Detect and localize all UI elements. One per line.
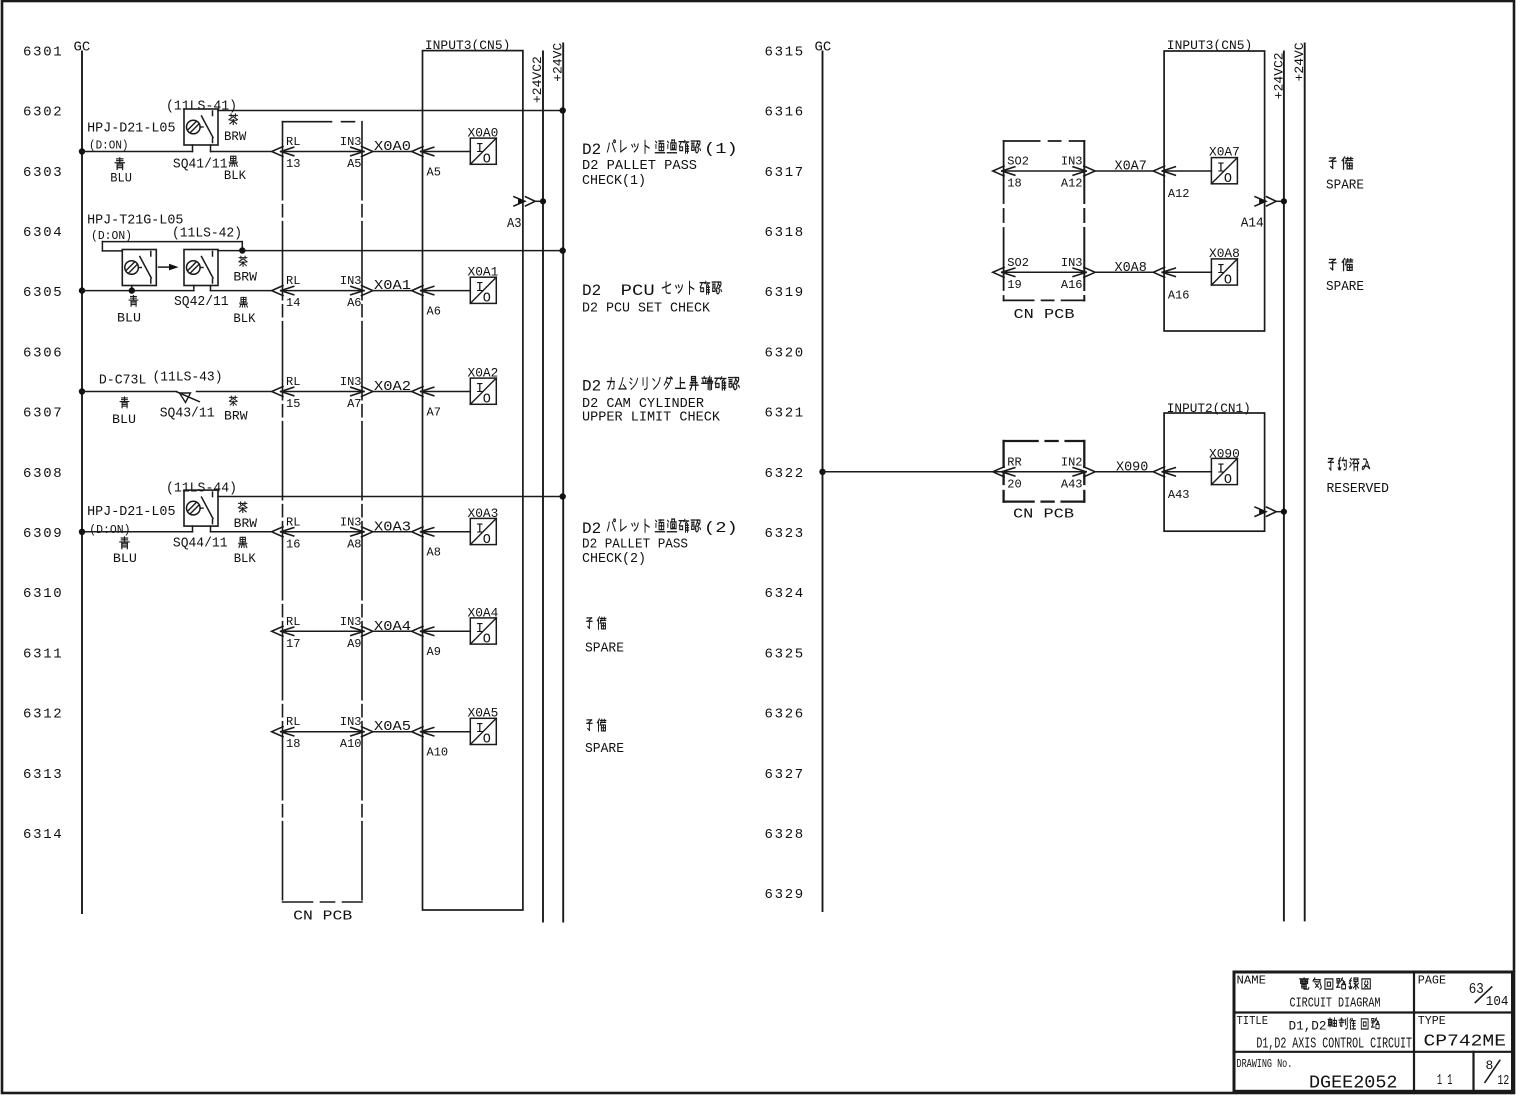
junction dot GC row6303 <box>79 148 85 154</box>
svg-text:PCU: PCU <box>621 282 655 300</box>
svg-text:12: 12 <box>1498 1074 1510 1089</box>
connector arrow SO2-19 left <box>993 267 1004 277</box>
svg-text:6304: 6304 <box>23 225 63 241</box>
wire X0A8 <box>1095 271 1153 273</box>
connector arrow IN3-A16 right <box>1084 267 1095 277</box>
connector arrow INPUT3 A5 <box>412 147 423 157</box>
connector arrow IN3-A10 right <box>362 727 373 737</box>
svg-text:BLK: BLK <box>233 312 256 326</box>
I/O input X0A7 <box>1211 158 1237 184</box>
wire GC to SQ43 <box>82 391 177 393</box>
svg-text:INPUT3(CN5): INPUT3(CN5) <box>425 38 511 53</box>
svg-text:X0A8: X0A8 <box>1115 260 1147 276</box>
wire GC to SQ41 pin <box>82 151 193 153</box>
svg-text:SPARE: SPARE <box>585 741 624 757</box>
svg-text:CP742ME: CP742ME <box>1424 1033 1507 1052</box>
I/O input X0A0 <box>470 138 496 164</box>
junction dot +24VC row6302 <box>560 107 566 113</box>
wire A16 to I/O <box>1163 271 1212 273</box>
svg-text:O: O <box>483 153 491 168</box>
wire inside CN PCB row R1 <box>1002 170 1086 172</box>
svg-text:6307: 6307 <box>23 406 63 422</box>
svg-text:A8: A8 <box>427 546 441 560</box>
connector INPUT2(CN1) box <box>1164 413 1265 531</box>
svg-text:D2 PCU SET CHECK: D2 PCU SET CHECK <box>582 301 711 317</box>
svg-text:A5: A5 <box>347 157 361 171</box>
description spare 2 <box>587 720 592 730</box>
I/O input X0A1 <box>470 277 496 303</box>
svg-text:+24VC: +24VC <box>551 43 566 82</box>
svg-text:IN3: IN3 <box>340 615 362 629</box>
svg-text:A16: A16 <box>1168 288 1190 302</box>
svg-text:NAME: NAME <box>1237 975 1267 988</box>
junction dot GC row6305 <box>79 287 85 293</box>
pin SQ42 left <box>193 286 195 291</box>
svg-text:6309: 6309 <box>23 526 63 542</box>
junction dot +24VC2 A14 <box>1281 198 1287 204</box>
svg-text:SPARE: SPARE <box>1326 177 1364 193</box>
rail +24VC left <box>562 44 564 922</box>
wire A7 to I/O <box>421 391 470 393</box>
svg-text:104: 104 <box>1486 994 1509 1010</box>
proximity switch SQ42 sensor head <box>122 250 156 286</box>
svg-text:O: O <box>483 533 491 548</box>
svg-text:A8: A8 <box>347 537 361 551</box>
wire SQ42 to CN PCB <box>211 290 272 292</box>
svg-text:20: 20 <box>1007 477 1021 491</box>
junction dot +24VC2 A3 <box>540 198 546 204</box>
wire inside CN PCB row E <box>281 630 364 632</box>
svg-text:SQ42/11: SQ42/11 <box>174 294 229 310</box>
svg-text:A43: A43 <box>1061 477 1083 491</box>
wire A43 to I/O <box>1163 471 1212 473</box>
svg-text:6319: 6319 <box>765 285 805 301</box>
svg-text:X0A2: X0A2 <box>468 366 499 381</box>
junction dot GC row6307 <box>79 388 85 394</box>
svg-text:IN3: IN3 <box>340 135 362 149</box>
svg-text:X0A0: X0A0 <box>468 126 499 141</box>
svg-text:6310: 6310 <box>23 586 63 602</box>
svg-text:6320: 6320 <box>765 345 805 361</box>
svg-text:6302: 6302 <box>23 105 63 121</box>
junction dot +24VC2 INPUT2 <box>1281 509 1287 515</box>
label 茶 row D <box>238 502 247 513</box>
wire SQ43 to CN PCB <box>197 391 272 393</box>
svg-text:X0A4: X0A4 <box>374 619 411 635</box>
wire X0A0 <box>373 151 412 153</box>
svg-text:CN PCB: CN PCB <box>1013 507 1074 523</box>
pin SQ41 left <box>192 145 194 152</box>
connector arrow RL15 left <box>272 387 283 397</box>
svg-text:18: 18 <box>1007 177 1021 191</box>
svg-text:6329: 6329 <box>765 887 805 903</box>
svg-text:16: 16 <box>286 537 300 551</box>
wire X090 <box>1095 471 1153 473</box>
svg-text:D1,D2: D1,D2 <box>1289 1019 1327 1034</box>
svg-text:O: O <box>483 292 491 307</box>
svg-text:A12: A12 <box>1168 187 1190 201</box>
svg-text:A3: A3 <box>507 217 522 232</box>
connector arrow RL18 left <box>272 727 283 737</box>
svg-text:6323: 6323 <box>765 526 805 542</box>
svg-text:A9: A9 <box>347 637 361 651</box>
svg-text:SO2: SO2 <box>1007 256 1029 270</box>
svg-text:(1): (1) <box>704 141 738 158</box>
svg-text:6301: 6301 <box>23 44 63 60</box>
wire GC to SQ44 pin <box>82 531 193 533</box>
svg-text:1 1: 1 1 <box>1437 1072 1452 1089</box>
arrow A3 to +24VC2 <box>514 197 525 206</box>
svg-text:PAGE: PAGE <box>1418 975 1446 988</box>
connector arrow IN3-A8 right <box>362 527 373 537</box>
wire A12 to I/O <box>1163 170 1212 172</box>
wire A10 to I/O <box>421 731 470 733</box>
svg-text:X090: X090 <box>1209 446 1240 461</box>
svg-text:+24VC2: +24VC2 <box>1271 52 1286 99</box>
wire inside CN PCB row R2 <box>1002 271 1086 273</box>
label 黒 row D <box>239 537 247 547</box>
I/O input X0A3 <box>470 518 496 544</box>
svg-text:A9: A9 <box>427 645 441 659</box>
svg-text:6316: 6316 <box>765 105 805 121</box>
pin SQ42 right <box>210 286 212 291</box>
svg-text:6326: 6326 <box>765 707 805 723</box>
connector arrow INPUT3 A6 <box>412 286 423 296</box>
svg-text:D2: D2 <box>582 520 601 538</box>
I/O input X0A2 <box>470 378 496 404</box>
wire X0A4 <box>373 630 412 632</box>
svg-text:O: O <box>1224 172 1232 187</box>
rail +24VC2 right <box>1283 52 1285 921</box>
label 茶 row C <box>229 396 237 406</box>
wire A6 to I/O <box>421 290 470 292</box>
connector arrow RL17 left <box>272 626 283 636</box>
svg-text:IN2: IN2 <box>1061 455 1083 469</box>
svg-text:A6: A6 <box>347 296 361 310</box>
svg-text:+24VC2: +24VC2 <box>530 56 545 103</box>
svg-text:X0A2: X0A2 <box>374 379 411 395</box>
svg-text:X0A5: X0A5 <box>374 719 411 735</box>
I/O input X0A4 <box>470 618 496 644</box>
pin SQ42 head <box>131 286 133 291</box>
wire GC to RR connector <box>823 471 1003 473</box>
connector INPUT3(CN5) left box <box>423 51 523 910</box>
svg-text:63: 63 <box>1469 981 1484 998</box>
svg-text:A10: A10 <box>427 746 449 760</box>
svg-text:IN3: IN3 <box>1061 256 1083 270</box>
label 青 row B <box>129 296 138 307</box>
svg-text:D2: D2 <box>582 282 601 300</box>
connector arrow IN3-A7 right <box>362 387 373 397</box>
svg-text:O: O <box>483 393 491 408</box>
connector arrow IN3-A6 right <box>362 286 373 296</box>
connector arrow IN3-A9 right <box>362 626 373 636</box>
connector INPUT3(CN5) right box <box>1164 51 1265 331</box>
svg-text:(11LS-43): (11LS-43) <box>153 371 223 386</box>
svg-text:HPJ-D21-L05: HPJ-D21-L05 <box>87 121 175 137</box>
svg-text:6328: 6328 <box>765 827 805 843</box>
svg-text:UPPER LIMIT CHECK: UPPER LIMIT CHECK <box>582 410 721 426</box>
svg-text:D2: D2 <box>582 141 601 159</box>
svg-text:15: 15 <box>286 397 300 411</box>
wire A8 to I/O <box>421 531 470 533</box>
svg-text:(D:ON): (D:ON) <box>89 138 129 152</box>
svg-text:(D:ON): (D:ON) <box>89 523 130 537</box>
svg-text:(11LS-42): (11LS-42) <box>172 226 242 241</box>
svg-text:CN PCB: CN PCB <box>1014 307 1075 323</box>
label 青 row D <box>120 537 129 549</box>
svg-text:BRW: BRW <box>234 517 258 531</box>
wire GC under SQ42 head <box>82 290 194 292</box>
svg-text:6318: 6318 <box>765 225 805 241</box>
limit switch SQ43/11 contact <box>177 392 199 402</box>
actuation arrow between switches <box>159 266 173 268</box>
svg-text:6321: 6321 <box>765 406 805 422</box>
svg-text:RR: RR <box>1007 455 1021 469</box>
svg-text:13: 13 <box>286 157 300 171</box>
junction dot +24VC row6308 <box>560 493 566 499</box>
svg-text:SQ43/11: SQ43/11 <box>160 405 215 421</box>
svg-text:6303: 6303 <box>23 165 63 181</box>
svg-text:6317: 6317 <box>765 165 805 181</box>
svg-text:19: 19 <box>1007 278 1021 292</box>
wire inside CN PCB row B <box>281 290 364 292</box>
sheet slash <box>1485 1060 1500 1082</box>
svg-text:6308: 6308 <box>23 466 63 482</box>
wire inside CN PCB row F <box>281 731 364 733</box>
connector arrow RL14 left <box>272 286 283 296</box>
svg-text:(11LS-44): (11LS-44) <box>166 482 237 497</box>
svg-text:A14: A14 <box>1241 217 1264 232</box>
svg-text:BRW: BRW <box>224 130 247 144</box>
description spare right 1 <box>1329 158 1336 168</box>
connector arrow INPUT3 A9 <box>412 626 423 636</box>
label 茶 row A <box>229 114 238 125</box>
wire inside CN PCB row R3 <box>1002 471 1086 473</box>
svg-text:SPARE: SPARE <box>1326 279 1364 295</box>
bus GC left vertical <box>81 52 83 914</box>
proximity switch SQ41/11 <box>184 109 218 145</box>
connector arrow INPUT3 A7 <box>412 387 423 397</box>
svg-text:RL: RL <box>286 515 300 529</box>
connector arrow INPUT2 A43 <box>1153 467 1164 477</box>
svg-text:6324: 6324 <box>765 586 805 602</box>
wire inside CN PCB row D <box>281 531 364 533</box>
svg-text:6311: 6311 <box>23 646 63 662</box>
bus GC right vertical <box>822 52 824 912</box>
svg-text:INPUT2(CN1): INPUT2(CN1) <box>1167 401 1251 416</box>
wire X0A2 <box>373 391 412 393</box>
svg-text:X0A4: X0A4 <box>468 605 499 620</box>
svg-text:18: 18 <box>286 737 300 751</box>
svg-text:TYPE: TYPE <box>1418 1015 1446 1028</box>
svg-text:A5: A5 <box>427 165 441 179</box>
svg-text:BLU: BLU <box>112 413 136 427</box>
svg-text:D-C73L: D-C73L <box>99 373 146 389</box>
svg-text:BLU: BLU <box>117 311 141 325</box>
connector CN PCB right upper dashed box <box>1004 140 1085 142</box>
connector CN PCB right lower dashed box <box>1004 440 1085 442</box>
junction dot +24VC row6304 <box>560 247 566 253</box>
svg-text:A7: A7 <box>347 397 361 411</box>
arrow INPUT2 to +24VC2 <box>1255 507 1266 516</box>
svg-text:RL: RL <box>286 135 300 149</box>
connector arrow INPUT3 A16 <box>1153 267 1164 277</box>
pin SQ44 right <box>210 526 212 532</box>
arrow A14 to +24VC2 <box>1255 197 1266 206</box>
svg-text:IN3: IN3 <box>340 715 362 729</box>
svg-text:RL: RL <box>286 615 300 629</box>
label 黒 row B <box>240 297 248 307</box>
svg-text:O: O <box>483 632 491 647</box>
connector CN PCB left dashed box <box>283 121 363 123</box>
svg-text:IN3: IN3 <box>340 274 362 288</box>
svg-text:X0A1: X0A1 <box>374 278 411 294</box>
svg-text:17: 17 <box>286 637 300 651</box>
wire A9 to I/O <box>421 630 470 632</box>
svg-text:O: O <box>1224 473 1232 488</box>
svg-text:X0A7: X0A7 <box>1115 159 1147 175</box>
svg-text:IN3: IN3 <box>340 375 362 389</box>
junction dot GC row6309 <box>79 529 85 535</box>
wire X0A1 <box>373 290 412 292</box>
svg-text:A16: A16 <box>1061 278 1083 292</box>
connector arrow RL13 left <box>272 147 283 157</box>
I/O input X0A8 <box>1211 259 1237 285</box>
svg-text:6305: 6305 <box>23 285 63 301</box>
pin SQ41 right <box>210 145 212 152</box>
svg-text:BLK: BLK <box>234 552 257 566</box>
I/O input X090 <box>1211 458 1237 484</box>
wire A5 to I/O <box>421 151 470 153</box>
svg-text:A6: A6 <box>427 304 441 318</box>
svg-text:CIRCUIT DIAGRAM: CIRCUIT DIAGRAM <box>1290 996 1381 1012</box>
svg-text:D2 PALLET PASS: D2 PALLET PASS <box>582 158 697 174</box>
svg-text:6315: 6315 <box>765 44 805 60</box>
svg-text:(11LS-41): (11LS-41) <box>166 100 237 115</box>
svg-text:O: O <box>483 733 491 748</box>
page slash <box>1475 987 1491 1003</box>
svg-text:6327: 6327 <box>765 767 805 783</box>
svg-text:RL: RL <box>286 274 300 288</box>
svg-text:CN PCB: CN PCB <box>293 909 352 925</box>
svg-text:D2: D2 <box>582 378 601 396</box>
proximity switch SQ42/11 <box>184 250 218 286</box>
junction dot loop brown <box>239 247 245 253</box>
svg-text:D1,D2 AXIS CONTROL CIRCUIT: D1,D2 AXIS CONTROL CIRCUIT <box>1256 1037 1412 1053</box>
wire inside CN PCB row A <box>281 151 364 153</box>
svg-text:6306: 6306 <box>23 345 63 361</box>
svg-text:(2): (2) <box>704 520 738 537</box>
label 青 row A <box>115 158 124 170</box>
wire SQ42 brown to +24VC <box>218 250 563 252</box>
svg-text:HPJ-T21G-L05: HPJ-T21G-L05 <box>87 213 183 229</box>
svg-text:6314: 6314 <box>23 827 63 843</box>
svg-text:X0A7: X0A7 <box>1209 145 1240 160</box>
wire SQ41 to CN PCB <box>211 151 272 153</box>
junction dot SQ42 blue pin <box>129 287 135 293</box>
svg-text:TITLE: TITLE <box>1237 1015 1269 1028</box>
svg-text:IN3: IN3 <box>340 515 362 529</box>
svg-text:SQ44/11: SQ44/11 <box>173 535 228 551</box>
label 茶 row B <box>239 256 247 266</box>
svg-text:BLK: BLK <box>224 169 247 183</box>
connector arrow RR-20 left <box>993 467 1004 477</box>
rail +24VC right <box>1304 44 1306 921</box>
svg-text:RL: RL <box>286 375 300 389</box>
connector arrow INPUT3 A12 <box>1153 166 1164 176</box>
wire SQ41 brown to +24VC <box>218 110 563 112</box>
svg-text:X0A0: X0A0 <box>374 139 411 155</box>
svg-text:6325: 6325 <box>765 646 805 662</box>
svg-text:X0A3: X0A3 <box>468 506 499 521</box>
proximity switch SQ44/11 <box>184 490 218 526</box>
svg-text:6312: 6312 <box>23 707 63 723</box>
svg-text:INPUT3(CN5): INPUT3(CN5) <box>1167 38 1253 53</box>
svg-text:DGEE2052: DGEE2052 <box>1309 1074 1398 1094</box>
rail +24VC2 left <box>542 52 544 922</box>
connector arrow IN3-A5 right <box>362 147 373 157</box>
connector arrow IN3-A12 right <box>1084 166 1095 176</box>
I/O input X0A5 <box>470 718 496 744</box>
pin SQ44 left <box>192 526 194 532</box>
connector arrow IN2-A43 right <box>1084 467 1095 477</box>
svg-text:X0A1: X0A1 <box>468 265 499 280</box>
svg-text:6313: 6313 <box>23 767 63 783</box>
svg-text:+24VC: +24VC <box>1292 42 1307 81</box>
label 青 row C <box>120 397 129 408</box>
svg-text:DRAWING No.: DRAWING No. <box>1237 1057 1293 1071</box>
junction dot GC row6322 <box>819 469 825 475</box>
svg-text:BLU: BLU <box>113 552 137 566</box>
label 黒 row A <box>229 156 237 166</box>
svg-text:A12: A12 <box>1061 177 1083 191</box>
description spare 1 <box>587 618 592 628</box>
svg-text:14: 14 <box>286 296 300 310</box>
connector arrow INPUT3 A8 <box>412 527 423 537</box>
svg-text:X090: X090 <box>1116 459 1148 475</box>
wire inside CN PCB row C <box>281 391 364 393</box>
svg-text:RL: RL <box>286 715 300 729</box>
connector arrow INPUT3 A10 <box>412 727 423 737</box>
description spare right 2 <box>1329 259 1336 269</box>
connector arrow SO2-18 left <box>993 166 1004 176</box>
svg-text:X0A8: X0A8 <box>1209 246 1240 261</box>
title 電気回路線図 <box>1300 978 1309 989</box>
svg-text:CHECK(1): CHECK(1) <box>582 173 646 189</box>
wire X0A5 <box>373 731 412 733</box>
svg-text:BLU: BLU <box>110 172 132 186</box>
svg-text:O: O <box>1224 273 1232 288</box>
svg-text:BRW: BRW <box>224 409 248 423</box>
svg-text:SQ41/11: SQ41/11 <box>173 157 228 173</box>
svg-text:IN3: IN3 <box>1061 155 1083 169</box>
svg-text:BRW: BRW <box>233 271 257 285</box>
svg-text:X0A3: X0A3 <box>374 519 411 535</box>
svg-text:SPARE: SPARE <box>585 641 624 657</box>
svg-text:CHECK(2): CHECK(2) <box>582 551 646 567</box>
svg-text:6322: 6322 <box>765 466 805 482</box>
svg-text:A7: A7 <box>427 405 441 419</box>
title block frame <box>1234 972 1513 1091</box>
svg-text:HPJ-D21-L05: HPJ-D21-L05 <box>87 504 175 520</box>
wire SQ44 brown to +24VC <box>218 496 563 498</box>
svg-text:A43: A43 <box>1168 488 1190 502</box>
svg-text:X0A5: X0A5 <box>468 706 499 721</box>
svg-text:RESERVED: RESERVED <box>1327 481 1390 497</box>
wire SQ44 to CN PCB <box>211 531 272 533</box>
wire X0A7 <box>1095 170 1153 172</box>
